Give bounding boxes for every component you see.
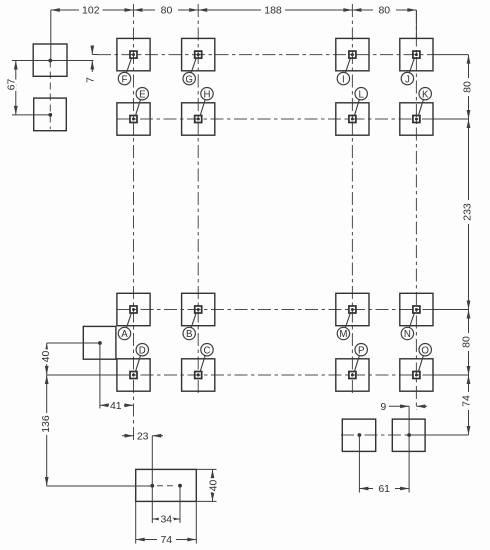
square bottom-right left	[342, 419, 375, 451]
square mid-left with dot	[83, 326, 116, 359]
dimension 80 top-left	[134, 5, 199, 17]
hole D	[117, 344, 150, 392]
svg-text:P: P	[358, 345, 364, 356]
svg-text:B: B	[186, 329, 192, 340]
dimension 34	[152, 514, 180, 526]
center line row 4 left extension	[47, 374, 117, 376]
dimension 7	[85, 46, 98, 83]
svg-text:61: 61	[378, 483, 390, 495]
extension lines 74 bottom	[136, 501, 197, 543]
rectangle bottom with two dots	[136, 469, 197, 501]
center line row 1	[98, 54, 469, 56]
hole J	[400, 38, 433, 85]
center line column 4	[351, 4, 353, 396]
extension line x=409.1 lower	[408, 435, 410, 493]
center line column 2	[133, 4, 135, 441]
hole O	[400, 344, 433, 392]
corner right of top chain	[415, 10, 417, 38]
center line column 3	[197, 4, 199, 396]
svg-text:80: 80	[161, 5, 173, 17]
center line row 4	[117, 374, 469, 376]
center line column 1	[49, 61, 51, 130]
hole M	[336, 293, 369, 340]
svg-text:67: 67	[6, 79, 18, 91]
svg-text:G: G	[185, 74, 193, 85]
hole H	[182, 88, 215, 136]
svg-text:A: A	[121, 329, 128, 340]
svg-text:I: I	[342, 74, 345, 85]
hole A	[117, 293, 150, 340]
dimension 102	[51, 5, 134, 17]
line through upper-left square center	[12, 60, 93, 62]
svg-text:M: M	[339, 329, 347, 340]
svg-text:N: N	[404, 329, 411, 340]
line to bottom rectangle dot	[47, 485, 153, 487]
svg-text:41: 41	[110, 400, 122, 412]
svg-text:74: 74	[160, 534, 172, 546]
extension ticks 40 rect	[196, 469, 216, 501]
dimension 188	[198, 5, 352, 17]
dimension 40 rect	[208, 469, 220, 501]
extension line right-bottom dot column	[408, 406, 410, 434]
hole F	[117, 38, 150, 85]
square top-left upper	[33, 44, 67, 76]
line from mid-left square dot	[47, 342, 100, 344]
dimension 74 bottom	[136, 534, 197, 546]
hole N	[400, 293, 433, 340]
svg-text:80: 80	[460, 336, 472, 348]
svg-text:7: 7	[85, 77, 97, 83]
svg-text:9: 9	[380, 401, 386, 413]
svg-text:D: D	[139, 345, 146, 356]
extension line x=152.3	[151, 436, 153, 523]
square bottom-right right	[392, 419, 425, 451]
svg-text:K: K	[422, 89, 429, 100]
dimension 74 right	[460, 395, 472, 435]
dimension 136	[40, 375, 52, 486]
hole L	[336, 88, 369, 136]
hole B	[182, 293, 215, 340]
dimension 233	[461, 203, 473, 318]
extension line x=180	[179, 486, 181, 523]
svg-text:H: H	[204, 89, 211, 100]
svg-text:L: L	[359, 89, 365, 100]
hole C	[182, 344, 215, 392]
svg-text:102: 102	[82, 5, 100, 17]
line through lower-left square center	[12, 114, 50, 116]
dimension 80 right lower	[460, 336, 472, 384]
svg-text:80: 80	[378, 5, 390, 17]
svg-text:23: 23	[137, 430, 149, 442]
svg-text:80: 80	[461, 81, 473, 93]
right dimension chain line	[468, 55, 470, 435]
dimension 61	[359, 483, 409, 495]
svg-text:O: O	[421, 345, 429, 356]
hole K	[400, 88, 433, 136]
extension line col1 top	[50, 10, 52, 61]
svg-text:40: 40	[208, 480, 220, 492]
center line bottom squares	[341, 434, 469, 436]
hole E	[117, 88, 150, 136]
hole P	[336, 344, 369, 392]
hole G	[182, 38, 215, 85]
center line column 5	[415, 10, 417, 410]
svg-text:F: F	[122, 74, 128, 85]
svg-text:74: 74	[460, 395, 472, 407]
dimension 9	[380, 401, 427, 413]
dimension 41	[100, 400, 134, 412]
svg-text:40: 40	[40, 351, 52, 363]
dimension 80 top-right	[352, 5, 416, 17]
extension line x=359.4	[358, 435, 360, 493]
svg-text:E: E	[139, 89, 146, 100]
center line row 2	[117, 118, 469, 120]
center line row 3	[117, 309, 469, 311]
svg-text:136: 136	[40, 415, 52, 433]
svg-text:188: 188	[264, 5, 282, 17]
svg-text:34: 34	[160, 514, 172, 526]
svg-text:C: C	[204, 345, 211, 356]
dimension 23	[122, 430, 163, 442]
hole I	[336, 38, 369, 85]
vertical from mid-left dot down	[99, 343, 101, 409]
square top-left lower	[34, 98, 67, 131]
dimension 80 right upper	[461, 55, 473, 128]
dimension 67	[6, 61, 18, 116]
svg-text:J: J	[405, 74, 410, 85]
dimension 40 left	[40, 343, 52, 375]
svg-text:233: 233	[461, 203, 473, 221]
